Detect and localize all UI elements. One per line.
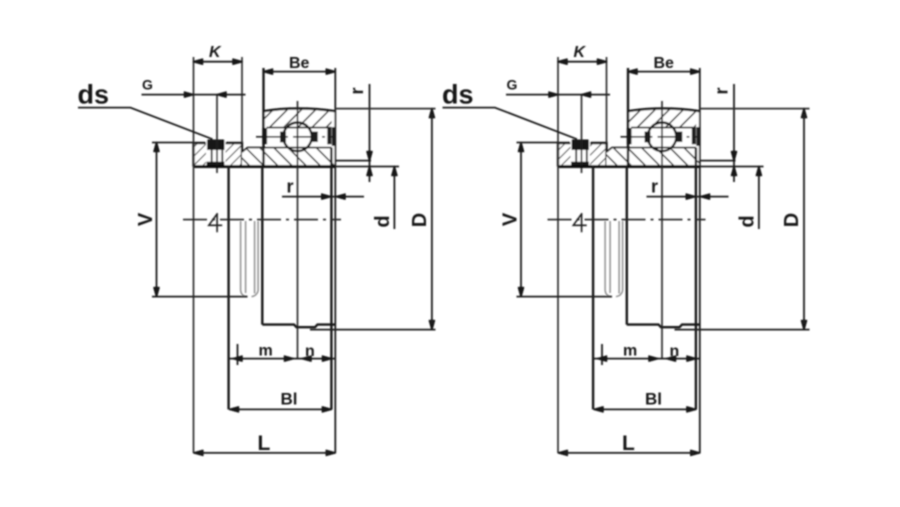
outer ring left face (left figure) xyxy=(262,68,264,167)
dimension D line (left figure) xyxy=(429,109,434,330)
recess line (right figure) xyxy=(700,160,736,162)
bore line (left figure) xyxy=(194,165,336,168)
right shoulder bar (right figure) xyxy=(692,127,700,146)
collar left face line (right figure) xyxy=(557,57,559,453)
dimension G line (right figure) xyxy=(506,92,610,97)
svg-text:n: n xyxy=(670,343,680,360)
ball (right figure) xyxy=(648,123,677,152)
svg-text:V: V xyxy=(135,212,157,226)
left shoulder bar (left figure) xyxy=(262,128,267,144)
set screw (right figure) xyxy=(571,140,591,167)
bore extension to d (right figure) xyxy=(700,166,764,168)
dimension r vertical (left figure) xyxy=(367,84,372,182)
cage section left (right figure) xyxy=(645,132,651,143)
sphere band bottom (left figure) xyxy=(262,325,335,328)
set screw (left figure) xyxy=(206,140,226,167)
main axis centerline (left figure) xyxy=(183,219,341,221)
right bearing figure xyxy=(442,44,810,455)
D bottom extension (left figure) xyxy=(310,329,436,331)
dimension Be line (right figure) xyxy=(628,69,700,74)
svg-text:ds: ds xyxy=(442,80,474,110)
m extension stub (left figure) xyxy=(237,344,239,365)
sleeve left face (left figure) xyxy=(227,167,229,410)
collar silhouette bottom curve (left figure) xyxy=(241,291,259,297)
svg-text:V: V xyxy=(500,212,522,226)
svg-text:K: K xyxy=(574,44,587,61)
svg-text:r: r xyxy=(651,177,658,197)
dimension L line (left figure) xyxy=(194,450,335,455)
ball (left figure) xyxy=(283,123,312,152)
dimension K line (right figure) xyxy=(558,59,607,64)
D top extension (right figure) xyxy=(700,108,810,110)
collar left face line (left figure) xyxy=(193,57,195,453)
dimension V line (left figure) xyxy=(154,143,159,297)
dimension Be line (left figure) xyxy=(264,69,336,74)
left bearing figure xyxy=(78,44,436,455)
dimension r horizontal (left figure) xyxy=(282,194,364,199)
collar section (left figure) xyxy=(194,143,243,167)
collar silhouette bottom curve (right figure) xyxy=(605,291,623,297)
raceway band (left figure) xyxy=(267,118,336,161)
sphere band left edge (right figure) xyxy=(626,167,628,325)
dimension Bl line (left figure) xyxy=(230,407,332,412)
set screw centerline (left figure) xyxy=(216,95,218,173)
dimension d line (left figure) xyxy=(392,167,397,230)
inner ring lower section (right figure) xyxy=(607,148,700,167)
sphere band left edge (left figure) xyxy=(261,167,263,325)
svg-text:D: D xyxy=(409,213,431,227)
svg-text:G: G xyxy=(142,77,153,93)
svg-text:K: K xyxy=(209,44,222,61)
dimension d line (right figure) xyxy=(756,167,761,230)
outer ring upper section (right figure) xyxy=(628,109,700,128)
collar bottom line (right figure) xyxy=(517,296,613,298)
svg-text:G: G xyxy=(507,77,518,93)
bore line (right figure) xyxy=(558,165,700,168)
collar bottom line (left figure) xyxy=(152,296,248,298)
inner ring right face (right figure) xyxy=(695,148,697,410)
ball crosshair (left figure) xyxy=(256,136,334,138)
dimension Bl line (right figure) xyxy=(594,407,696,412)
dimension m n line (right figure) xyxy=(593,356,700,361)
right shoulder bar (left figure) xyxy=(327,127,335,146)
raceway band (right figure) xyxy=(631,118,700,161)
dimension V line (right figure) xyxy=(519,143,524,297)
svg-text:Bl: Bl xyxy=(645,390,662,409)
V top extension (left figure) xyxy=(152,142,194,144)
svg-text:ds: ds xyxy=(78,80,110,110)
svg-text:Bl: Bl xyxy=(281,390,298,409)
collar silhouette lines (left figure) xyxy=(241,221,259,294)
collar right face extension (left figure) xyxy=(241,57,243,143)
dimension K line (left figure) xyxy=(194,59,243,64)
svg-text:n: n xyxy=(305,343,315,360)
svg-text:m: m xyxy=(623,343,637,360)
svg-text:L: L xyxy=(622,432,635,455)
svg-text:r: r xyxy=(347,87,367,94)
centerline 4 mark (right figure) xyxy=(573,213,586,232)
collar section (right figure) xyxy=(558,143,607,167)
outer ring left face (right figure) xyxy=(627,68,629,167)
ball center vertical line (right figure) xyxy=(661,101,663,359)
dimension L line (right figure) xyxy=(558,450,700,455)
cage section right (left figure) xyxy=(312,132,318,143)
sleeve left face (right figure) xyxy=(592,167,594,410)
svg-text:m: m xyxy=(259,343,273,360)
cage section left (left figure) xyxy=(280,132,286,143)
dimension m n line (left figure) xyxy=(229,356,336,361)
svg-text:Be: Be xyxy=(289,55,310,72)
recess line (left figure) xyxy=(335,160,371,162)
cage section right (right figure) xyxy=(676,132,682,143)
outer ring upper section (left figure) xyxy=(264,109,336,128)
main axis centerline (right figure) xyxy=(548,219,706,221)
left shoulder bar (right figure) xyxy=(627,128,632,144)
dimension r vertical (right figure) xyxy=(732,84,737,182)
dimension r horizontal (right figure) xyxy=(647,194,729,199)
m extension stub (right figure) xyxy=(601,344,603,365)
ds leader line (right figure) xyxy=(443,108,578,140)
svg-text:L: L xyxy=(258,432,271,455)
dimension G line (left figure) xyxy=(142,92,246,97)
D top extension (left figure) xyxy=(335,108,435,110)
sphere band bottom (right figure) xyxy=(627,325,700,328)
outer ring right face (left figure) xyxy=(334,68,336,453)
svg-text:Be: Be xyxy=(654,55,675,72)
dimension D line (right figure) xyxy=(802,109,807,330)
svg-text:d: d xyxy=(372,215,394,227)
collar right face extension (right figure) xyxy=(606,57,608,143)
bore extension to d (left figure) xyxy=(335,166,399,168)
inner ring lower section (left figure) xyxy=(242,148,335,167)
inner ring right face (left figure) xyxy=(330,148,332,410)
outer ring right face (right figure) xyxy=(699,68,701,453)
ball center vertical line (left figure) xyxy=(297,101,299,359)
ds leader line (left figure) xyxy=(78,108,213,140)
D bottom extension (right figure) xyxy=(675,329,810,331)
collar silhouette lines (right figure) xyxy=(605,221,623,294)
svg-text:D: D xyxy=(781,213,803,227)
ball crosshair (right figure) xyxy=(621,136,699,138)
centerline 4 mark (left figure) xyxy=(209,213,222,232)
svg-text:r: r xyxy=(711,87,731,94)
svg-text:r: r xyxy=(287,177,294,197)
svg-text:d: d xyxy=(737,215,759,227)
set screw centerline (right figure) xyxy=(581,95,583,173)
V top extension (right figure) xyxy=(517,142,559,144)
